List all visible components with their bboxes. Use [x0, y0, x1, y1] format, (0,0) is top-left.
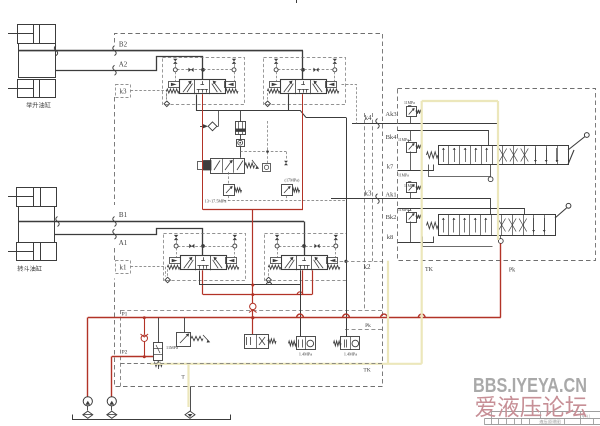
pilot control valve PV2 body: [439, 215, 556, 236]
red node P1-supply: [251, 316, 254, 319]
svg-text:11MPa: 11MPa: [404, 184, 415, 188]
svg-text:(17MPa): (17MPa): [285, 178, 300, 183]
PV2 lever: [555, 208, 567, 218]
wire Ak1: [398, 199, 491, 215]
valve V1 right pilot orifice circle: [232, 68, 236, 72]
PV2 drain port circle: [500, 236, 502, 239]
label k1 left: [116, 261, 131, 274]
valve V3 pilot gauge line: [178, 246, 233, 248]
valve V3 left pilot orifice circle: [174, 244, 178, 248]
lift cylinder manifold body: [19, 44, 56, 78]
tank line: [73, 415, 231, 420]
red wire bottom bridge: [203, 209, 303, 211]
valve V4 body: [282, 256, 328, 270]
red wire bottom valve bridge: [203, 294, 312, 296]
valve V1 pilot gauge line: [177, 69, 232, 71]
valve V2 right pilot: [326, 82, 337, 88]
wire B2: [18, 50, 303, 52]
wire T bridge of V3 V4: [200, 271, 301, 337]
red wire V2 center drop: [302, 94, 304, 210]
valve V4 dashed enclosure: [265, 234, 347, 281]
Pk dashed channel line: [345, 329, 383, 331]
bucket cylinder lower barrel: [17, 243, 57, 261]
lift cylinder lower rod: [8, 88, 33, 90]
check valve C2 with diamond: [202, 124, 208, 129]
red node on T bridge: [251, 284, 254, 287]
red wire V4 drop: [302, 270, 304, 294]
label k3 left: [116, 85, 131, 98]
valve V1 left check orifice: [173, 59, 177, 64]
wire V1-V2 bridge: [197, 95, 301, 111]
valve V4 pilot drop lines: [277, 248, 279, 257]
wire Ak3: [398, 124, 499, 146]
svg-text:A2: A2: [119, 61, 128, 69]
svg-text:A1: A1: [119, 239, 128, 247]
svg-text:k8: k8: [387, 234, 394, 241]
valve V2 pilot drop lines: [276, 72, 278, 81]
svg-text:11MPa: 11MPa: [398, 138, 409, 142]
svg-text:11MPa: 11MPa: [398, 174, 409, 178]
lift cylinder lower barrel: [18, 80, 56, 98]
valve V4 drain diamond: [266, 277, 272, 283]
valve V3 right pilot orifice circle: [233, 244, 237, 248]
wire filter stack drop: [240, 110, 242, 121]
yellow wire Tk left vertical: [421, 101, 423, 364]
valve V3 drain diamond: [165, 277, 171, 283]
svg-text:B1: B1: [119, 211, 128, 219]
pilot supply valve V7: [252, 318, 254, 334]
wire k3 link: [331, 198, 397, 200]
red wire P2 line: [112, 356, 154, 358]
valve V3 pilot drop lines: [176, 248, 178, 257]
valve V1 left pilot orifice circle: [173, 68, 177, 72]
unloader valve V5: [158, 318, 160, 343]
valve V4 pilot gauge line: [279, 246, 334, 248]
yellow wire Tk right vertical: [497, 101, 499, 240]
wire Bk4: [398, 131, 489, 146]
svg-text:TK: TK: [363, 368, 370, 374]
valve V3 right check orifice: [233, 235, 237, 240]
pump PU2: [107, 397, 116, 406]
TK dashed channel line: [121, 363, 383, 365]
valve V4 right check orifice: [334, 235, 338, 240]
pilot control valve PV1 body: [439, 146, 569, 165]
wire B1: [19, 221, 304, 223]
valve V3 left pilot: [170, 258, 181, 264]
break symbol B1 boundary: [113, 217, 116, 227]
svg-text:爱液压论坛: 爱液压论坛: [475, 394, 588, 420]
main valve block dashed boundary: [115, 34, 383, 387]
valve V2 dashed enclosure: [264, 58, 346, 105]
wire k7: [398, 165, 434, 171]
svg-text:Bk4: Bk4: [386, 134, 398, 141]
yellow wire return drop to filter: [187, 364, 189, 407]
svg-text:Pk: Pk: [365, 323, 371, 329]
svg-text:k3: k3: [365, 190, 373, 198]
suction filter FL2: [107, 411, 117, 418]
valve V2 left pilot: [270, 82, 281, 88]
bucket cylinder upper rod: [8, 196, 34, 198]
svg-text:11MPa: 11MPa: [398, 208, 409, 212]
k1 pilot dashed line: [131, 267, 166, 277]
svg-text:Pk: Pk: [509, 268, 515, 274]
PV2 internals: [443, 218, 445, 233]
valve V4 inline orifice: [314, 244, 319, 248]
svg-text:Bk2: Bk2: [386, 214, 397, 221]
red wire pump2 riser: [111, 357, 113, 397]
relief R3: [407, 183, 417, 193]
svg-text:Ak3: Ak3: [385, 111, 396, 118]
mid dashed pilot lines: [267, 121, 269, 163]
node A2 junction: [201, 68, 205, 72]
inner dashed k-channel vertical 1: [364, 113, 366, 310]
svg-text:P2: P2: [122, 350, 128, 356]
break symbol B2 cylinder side: [54, 46, 57, 56]
valve V2 right pilot orifice circle: [333, 68, 337, 72]
main relief valve RV1: [224, 185, 235, 196]
red wire pump1 riser: [87, 318, 89, 397]
node A1 junction: [201, 244, 205, 248]
bucket cylinder lower piston: [33, 243, 35, 261]
valve V2 left check orifice: [274, 59, 278, 64]
bucket cylinder manifold body: [19, 207, 55, 243]
valve V2 right check orifice: [333, 59, 337, 64]
wire bridge to tank drop: [300, 110, 306, 117]
title block table: [491, 411, 600, 413]
valve V1 dashed enclosure: [163, 58, 245, 105]
wire k8: [398, 237, 434, 243]
svg-text:k7: k7: [387, 164, 394, 171]
red check valve C1 between P1 P2: [144, 318, 146, 335]
PV1 spring: [427, 152, 439, 158]
pump PU1: [83, 397, 92, 406]
gauge port G1: [237, 140, 245, 147]
wire pump1 suction: [87, 406, 89, 411]
red wire V3 drop: [202, 270, 204, 294]
relief R1: [407, 107, 417, 117]
bucket cylinder upper barrel: [17, 188, 57, 207]
relief R4: [407, 213, 417, 223]
inner dashed k-channel vertical 2: [372, 113, 374, 261]
node B1 junction: [302, 244, 306, 248]
pilot valve block dashed boundary: [398, 89, 596, 261]
svg-text:Ak1: Ak1: [385, 192, 396, 199]
valve V1 right check orifice: [232, 59, 236, 64]
valve V1 right pilot: [225, 82, 236, 88]
bucket cylinder upper piston: [33, 188, 35, 207]
PV1 bottom bus: [429, 165, 491, 177]
svg-text:TK: TK: [425, 267, 434, 273]
valve V3 right pilot: [226, 258, 237, 264]
red wire V1 center drop: [202, 94, 204, 210]
return filter FL3: [185, 411, 195, 418]
valve V2 pilot gauge line: [278, 69, 333, 71]
lift cylinder lower piston: [33, 80, 35, 98]
break symbol B1 cylinder side: [56, 217, 59, 227]
pilot operated unloading valve V10 body: [211, 159, 245, 174]
red wire center supply drop: [252, 210, 254, 304]
yellow wire Tk bottom horizontal: [150, 363, 422, 365]
svg-text:k3: k3: [120, 88, 128, 96]
svg-text:B2: B2: [119, 41, 128, 49]
red wire P1 trunk: [88, 317, 501, 319]
bottom section dashed boundary: [121, 310, 383, 312]
valve V1 pilot drop lines: [175, 72, 177, 81]
break symbol B2 boundary: [113, 46, 116, 56]
red wire Pk drop: [500, 243, 502, 317]
break symbol A1 boundary: [113, 229, 116, 239]
pressure reducing valve V9: [334, 341, 342, 346]
filter F1: [236, 122, 246, 135]
valve V2 left pilot orifice circle: [274, 68, 278, 72]
dashed pilot V2 to k4: [342, 85, 357, 124]
red node center: [251, 293, 254, 296]
valve V2 drain diamond: [265, 101, 271, 107]
port relief valve RV2: [282, 185, 293, 196]
bucket cylinder lower rod: [8, 251, 34, 253]
pressure reducing valve V8: [300, 336, 302, 338]
gauge port G2: [263, 164, 271, 172]
valve V3 dashed enclosure: [164, 234, 246, 281]
red wire V4 right port drop: [312, 270, 314, 294]
wire A2: [56, 57, 203, 80]
valve V2 body: [281, 80, 327, 94]
PV1 drain port circle: [488, 177, 493, 182]
lift cylinder upper barrel: [18, 25, 56, 44]
svg-text:k4: k4: [365, 114, 373, 122]
valve V10 right spring: [245, 163, 255, 168]
relief drain dashed line: [224, 200, 347, 202]
k3 pilot dashed line: [131, 91, 167, 100]
svg-text:举升油缸: 举升油缸: [26, 102, 51, 110]
suction filter FL1: [83, 411, 93, 418]
valve V3 left check orifice: [174, 235, 178, 240]
valve V4 right pilot orifice circle: [334, 244, 338, 248]
valve V4 left check orifice: [275, 235, 279, 240]
wire k4 link: [352, 123, 397, 125]
yellow wire TK box drop: [387, 261, 389, 364]
svg-text:1.4MPa: 1.4MPa: [299, 352, 312, 357]
valve V2 inline orifice: [313, 68, 318, 72]
valve V1 inline orifice: [188, 68, 193, 72]
tank line from bridge to bottom: [306, 117, 346, 119]
lift cylinder upper piston: [33, 24, 35, 43]
svg-text:转斗油缸: 转斗油缸: [17, 265, 42, 273]
wire Bk2: [398, 209, 525, 215]
valve V1 left pilot: [169, 82, 180, 88]
wire A1: [55, 229, 203, 256]
wire to mid valve: [240, 146, 242, 158]
relief R2: [407, 143, 417, 153]
break symbol A2 boundary: [113, 65, 116, 75]
svg-text:P1: P1: [122, 312, 128, 318]
valve V1 body: [180, 80, 226, 94]
dashed k2 line: [334, 261, 384, 263]
PV1 internals: [443, 148, 445, 162]
node k2-T junction: [344, 260, 347, 263]
svg-text:k1: k1: [120, 264, 128, 272]
yellow wire Tk top bar: [422, 100, 498, 102]
valve V3 inline orifice: [189, 244, 194, 248]
orifice mid: [284, 161, 288, 166]
lift cylinder upper rod: [8, 33, 33, 35]
top edge artifact: [296, 0, 298, 3]
svg-text:1.4MPa: 1.4MPa: [344, 352, 357, 357]
svg-text:13~17.5MPa: 13~17.5MPa: [205, 199, 227, 204]
wire pump2 suction: [111, 406, 113, 411]
red check valve C3: [250, 303, 256, 309]
solenoid relief valve V6: [184, 318, 186, 332]
svg-text:11MPa: 11MPa: [404, 101, 415, 105]
node B2 junction: [301, 68, 305, 72]
valve V1 drain diamond: [164, 101, 170, 107]
valve V4 left pilot: [271, 258, 282, 264]
PV1 lever: [568, 137, 585, 151]
PV2 spring: [427, 222, 439, 228]
svg-text:k2: k2: [364, 263, 372, 271]
valve V10 left pilot blocks: [204, 161, 212, 171]
TK dashed overlay: [121, 363, 383, 365]
return line to filter: [190, 387, 192, 412]
valve V3 body: [181, 256, 227, 270]
valve V4 right pilot: [327, 258, 338, 264]
PV2 bottom bus: [423, 237, 493, 247]
valve V4 left pilot orifice circle: [275, 244, 279, 248]
